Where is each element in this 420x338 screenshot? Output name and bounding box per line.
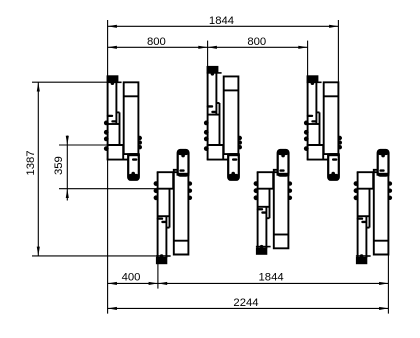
top extension line left (to stand 1) bbox=[107, 20, 109, 76]
359 extension line lower (to stand 4 base) bbox=[59, 188, 157, 190]
bike stand 5 (back middle, raised) bbox=[254, 150, 293, 255]
bottom extension line right (from stand 6 body) bbox=[387, 255, 389, 314]
dimension 359 line bbox=[66, 145, 68, 189]
svg-text:1387: 1387 bbox=[25, 150, 37, 175]
svg-text:800: 800 bbox=[147, 36, 166, 48]
left extension line upper (to stand 1 crossbar) bbox=[32, 81, 107, 83]
359 extension line upper (to stand 1 base) bbox=[59, 144, 107, 146]
left extension line lower (to stand 4 crossbar) bbox=[32, 255, 156, 257]
svg-text:1844: 1844 bbox=[209, 15, 234, 27]
dimension 1844 top line bbox=[108, 25, 339, 27]
dimension 2244 line bbox=[108, 307, 389, 309]
svg-text:2244: 2244 bbox=[233, 297, 258, 309]
bike stand 2 (front middle, raised) bbox=[204, 66, 242, 180]
bike stand 4 (back left, deep) bbox=[154, 150, 193, 265]
bike stand 1 (front left, low) bbox=[104, 75, 142, 180]
dimension 800 right line bbox=[208, 46, 308, 48]
dimension 400 and 1844 bottom line bbox=[108, 282, 389, 284]
svg-text:400: 400 bbox=[122, 272, 141, 284]
svg-text:359: 359 bbox=[53, 156, 65, 175]
top extension tick right (to stand 3) bbox=[307, 41, 309, 76]
top extension tick middle (to stand 2) bbox=[207, 41, 209, 67]
bike stand 3 (front right, low) bbox=[304, 75, 342, 180]
svg-text:800: 800 bbox=[247, 36, 266, 48]
dimension 1387 line bbox=[37, 82, 39, 256]
359 outside arrow bottom bbox=[66, 189, 68, 201]
359 outside arrow top bbox=[66, 136, 68, 146]
svg-text:1844: 1844 bbox=[259, 272, 284, 284]
bike stand 6 (back right, deep) bbox=[354, 150, 393, 265]
top extension line far right (to stand 3 body) bbox=[337, 20, 339, 82]
dimension 800 left line bbox=[108, 46, 208, 48]
bottom extension line middle (from stand 4 cap) bbox=[157, 264, 159, 289]
bottom extension line left (from stand 1 base) bbox=[107, 160, 109, 314]
